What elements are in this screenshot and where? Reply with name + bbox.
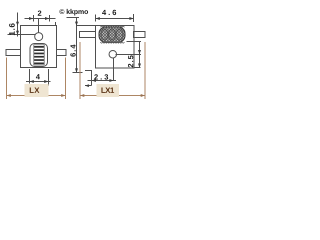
label 4 (36, 74, 40, 79)
right view pivot circle (109, 50, 117, 58)
dimension 1.6 lines (8, 13, 36, 37)
right view body outline (96, 26, 135, 69)
dimension 2 lines (25, 15, 56, 25)
left view right lead tab (57, 50, 67, 56)
right view right lead tab (134, 32, 146, 38)
label LX (30, 88, 40, 93)
label 6.4 (70, 45, 75, 57)
right view left lead tab (80, 32, 96, 38)
dimension 4.6 lines (96, 14, 135, 22)
label 2.3 (94, 74, 108, 79)
dimension LX lines (brown) (7, 58, 66, 99)
label 4.6 (102, 10, 116, 15)
label 2 (38, 10, 42, 15)
label LX1 (101, 88, 114, 93)
label 2.5 (128, 55, 133, 67)
LX1 beige field (97, 84, 120, 97)
LX beige field (25, 84, 49, 97)
knurled thumbwheel (99, 27, 125, 42)
left view adjustment circle (35, 33, 43, 41)
rotor stadium outline (30, 44, 48, 67)
dimension 2.5 lines (116, 42, 142, 68)
label 1.6 (9, 23, 15, 35)
pivot center line (113, 58, 115, 68)
left view body outline (21, 26, 57, 68)
center line from dim 2 to circle (38, 19, 40, 34)
dimension LX1 lines (brown) (80, 42, 145, 99)
watermark copyright kkpmo (59, 9, 88, 16)
dimension 4 lines (26, 69, 51, 86)
dimension 6.4 lines (67, 18, 96, 73)
left view left lead tab (6, 50, 21, 56)
dimension 2.3 lines (85, 68, 116, 86)
striped rotor block (34, 45, 44, 65)
